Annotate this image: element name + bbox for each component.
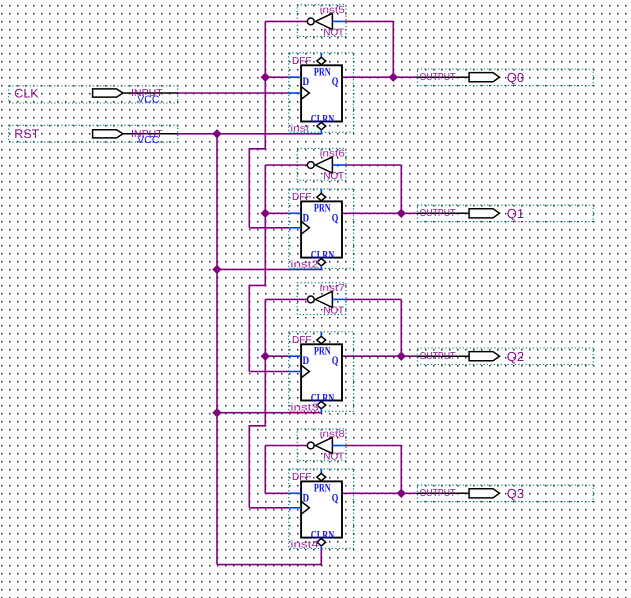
svg-text:Q0: Q0	[507, 70, 524, 85]
svg-text:Q: Q	[332, 212, 339, 224]
svg-text:D: D	[303, 76, 310, 88]
svg-text:inst8: inst8	[320, 429, 346, 440]
wire RST vertical bus	[216, 134, 218, 565]
wire NOT output to D input stage 3	[265, 299, 288, 356]
wire Q0-bar feed to clock of stage 2	[249, 77, 288, 228]
svg-text:NOT: NOT	[323, 171, 344, 182]
svg-text:VCC: VCC	[137, 135, 159, 146]
junction RST branch 3	[212, 408, 221, 417]
svg-text:DFF: DFF	[292, 472, 311, 483]
svg-text:DFF: DFF	[292, 192, 311, 203]
junction D node stage 2	[261, 209, 270, 218]
D flip-flop DFF inst4 stage 4	[289, 469, 354, 566]
wire RST branch to CLRN of DFF inst2	[217, 268, 321, 270]
output pin Q1	[417, 205, 593, 222]
svg-text:PRN: PRN	[314, 345, 331, 357]
svg-text:DFF: DFF	[292, 335, 311, 346]
input pin CLK	[9, 86, 178, 105]
svg-text:OUTPUT: OUTPUT	[420, 488, 456, 499]
svg-text:NOT: NOT	[323, 306, 344, 317]
svg-text:D: D	[303, 355, 310, 367]
svg-text:D: D	[303, 212, 310, 224]
svg-text:PRN: PRN	[314, 203, 331, 215]
svg-text:OUTPUT: OUTPUT	[420, 351, 456, 362]
svg-text:D: D	[303, 492, 310, 504]
wire RST branch to CLRN of DFF inst3	[217, 412, 321, 414]
svg-text:VCC: VCC	[137, 94, 159, 105]
svg-text:inst: inst	[291, 124, 310, 135]
wire NOT output to D input stage 1	[265, 21, 288, 77]
svg-text:Q: Q	[332, 355, 339, 367]
wire Q output to OUTPUT pin stage 4	[342, 492, 417, 494]
wire Q to NOT input stage 3	[346, 299, 401, 356]
wire NOT output to D input stage 4	[265, 446, 288, 494]
input pin RST	[9, 125, 178, 146]
wire Q to NOT input stage 2	[346, 165, 401, 213]
junction Q node stage 1	[389, 73, 398, 82]
D flip-flop DFF inst2 stage 2	[289, 189, 354, 271]
svg-text:OUTPUT: OUTPUT	[420, 208, 456, 219]
junction RST at x217	[212, 129, 221, 138]
svg-text:inst6: inst6	[320, 148, 346, 159]
junction Q node stage 2	[397, 209, 406, 218]
wire CLK pin to DFF inst clock input	[178, 92, 289, 94]
junction Q node stage 3	[397, 352, 406, 361]
svg-text:Q1: Q1	[507, 206, 524, 221]
output pin Q2	[417, 348, 593, 365]
svg-text:NOT: NOT	[323, 28, 344, 39]
svg-text:Q2: Q2	[507, 349, 524, 364]
wire NOT output to D input stage 2	[265, 165, 288, 213]
wire Q1-bar feed to clock of stage 3	[249, 213, 288, 371]
wire Q output to OUTPUT pin stage 1	[342, 76, 417, 78]
junction RST branch 2	[212, 265, 221, 274]
junction Q node stage 4	[397, 489, 406, 498]
NOT gate inst5 stage 1	[265, 5, 346, 39]
svg-text:Q: Q	[332, 76, 339, 88]
D flip-flop DFF inst stage 1	[289, 53, 354, 135]
svg-text:PRN: PRN	[314, 483, 331, 495]
NOT gate inst7 stage 3	[265, 283, 346, 317]
svg-text:OUTPUT: OUTPUT	[420, 72, 456, 83]
output pin Q0	[417, 69, 593, 86]
svg-text:inst4: inst4	[291, 540, 320, 551]
wire Q output to OUTPUT pin stage 2	[342, 212, 417, 214]
wire Q2-bar feed to clock of stage 4	[249, 356, 288, 508]
junction D node stage 1	[261, 73, 270, 82]
NOT gate inst8 stage 4	[265, 429, 346, 463]
wire RST pin to CLRN of DFF inst	[178, 133, 322, 135]
svg-text:Q: Q	[332, 492, 339, 504]
svg-text:RST: RST	[14, 127, 39, 141]
wire Q to NOT input stage 4	[346, 446, 401, 494]
svg-text:NOT: NOT	[323, 452, 344, 463]
wire Q output to OUTPUT pin stage 3	[342, 355, 417, 357]
NOT gate inst6 stage 2	[265, 148, 346, 182]
svg-text:inst2: inst2	[291, 260, 320, 271]
wire RST bottom branch to CLRN of DFF inst4	[217, 564, 322, 566]
junction D node stage 3	[261, 352, 270, 361]
svg-text:inst3: inst3	[291, 403, 320, 414]
wire Q to NOT input stage 1	[346, 21, 393, 77]
D flip-flop DFF inst3 stage 3	[289, 332, 354, 414]
svg-text:PRN: PRN	[314, 66, 331, 78]
svg-text:CLRN: CLRN	[311, 113, 335, 125]
svg-text:inst7: inst7	[320, 283, 346, 294]
svg-text:inst5: inst5	[320, 5, 346, 16]
svg-text:CLK: CLK	[14, 86, 39, 100]
output pin Q3	[417, 485, 593, 502]
svg-text:DFF: DFF	[292, 56, 311, 67]
svg-text:Q3: Q3	[507, 486, 524, 501]
